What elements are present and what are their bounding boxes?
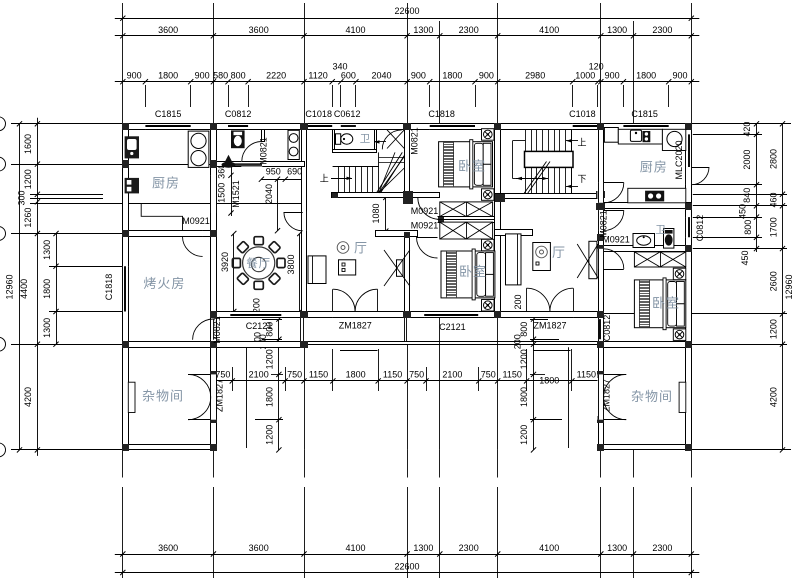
svg-text:2800: 2800 xyxy=(768,149,778,169)
wardrobe shelf band xyxy=(438,216,495,218)
svg-text:卫: 卫 xyxy=(655,224,667,236)
grid lines through courtyard xyxy=(304,344,306,450)
stair south wall left xyxy=(332,193,410,198)
wardrobe right bedroom xyxy=(634,252,685,267)
bath-left shower with X xyxy=(387,130,404,149)
main double door ZM1827 left xyxy=(333,311,378,318)
svg-text:750: 750 xyxy=(409,369,424,379)
svg-text:M0921: M0921 xyxy=(602,235,630,245)
bed top bedroom D..F xyxy=(439,142,493,187)
svg-text:1150: 1150 xyxy=(309,369,328,379)
svg-text:厅: 厅 xyxy=(354,241,368,256)
svg-text:1000: 1000 xyxy=(575,71,595,81)
svg-text:2300: 2300 xyxy=(652,25,672,35)
svg-text:1300: 1300 xyxy=(42,240,52,260)
hall-left TV with X xyxy=(397,260,404,277)
door ZM1827 storage right xyxy=(598,374,605,419)
window C2121 dining south xyxy=(230,311,281,318)
door dining to stair hall xyxy=(301,212,308,231)
svg-text:2100: 2100 xyxy=(249,369,269,379)
svg-text:杂物间: 杂物间 xyxy=(631,389,673,404)
door M0921 kitchen-left xyxy=(183,230,203,237)
stair south wall right xyxy=(495,194,604,199)
window C1818 top xyxy=(430,123,475,130)
porch step lines C..G at R7 xyxy=(307,341,598,343)
dining table with chairs xyxy=(277,258,285,267)
svg-text:厅: 厅 xyxy=(552,245,566,260)
svg-text:C1815: C1815 xyxy=(155,109,182,119)
storage-left walls xyxy=(123,342,217,348)
WC vanity double basin xyxy=(288,130,299,159)
doors M0921 nook top xyxy=(418,197,440,219)
svg-text:1200: 1200 xyxy=(23,169,33,189)
dim 950 690 xyxy=(261,179,304,181)
svg-text:300: 300 xyxy=(17,190,27,205)
svg-text:120: 120 xyxy=(589,62,604,72)
window C0812 in wall G to porch xyxy=(598,319,605,339)
kitchen-right fridge xyxy=(604,128,618,143)
svg-text:M0921: M0921 xyxy=(411,206,439,216)
svg-text:1200: 1200 xyxy=(265,349,275,369)
svg-text:4100: 4100 xyxy=(539,543,559,553)
svg-text:4200: 4200 xyxy=(768,387,778,407)
svg-text:餐厅: 餐厅 xyxy=(246,256,271,270)
stair left unit: lower flight risers xyxy=(333,166,379,168)
svg-text:ZM1827: ZM1827 xyxy=(533,321,566,331)
svg-text:460: 460 xyxy=(768,192,778,207)
svg-text:2000: 2000 xyxy=(742,150,752,170)
svg-text:C2121: C2121 xyxy=(439,322,466,332)
kitchen-right south wall xyxy=(599,203,692,209)
kitchen-right water heater xyxy=(662,129,685,150)
main double door ZM1827 right xyxy=(527,311,574,318)
svg-text:1200: 1200 xyxy=(768,319,778,339)
svg-text:840: 840 xyxy=(742,188,752,203)
bath-left door arc xyxy=(382,130,402,150)
bath-left toilet xyxy=(336,134,341,145)
dim 3920 dining xyxy=(233,234,235,312)
kitchen-right south counter with stove xyxy=(628,188,686,203)
stair right landing box xyxy=(525,151,574,167)
nook wall to wardrobe left xyxy=(410,193,440,198)
door ZM1827 storage left xyxy=(210,374,217,419)
axis grid lines below plan xyxy=(122,450,124,478)
svg-text:1600: 1600 xyxy=(23,134,33,154)
bed lower bedroom D..F xyxy=(441,251,495,298)
bath-left enclosure xyxy=(333,130,335,153)
svg-text:1300: 1300 xyxy=(42,318,52,338)
top dimension row 1: overall 22600 xyxy=(115,18,700,20)
svg-text:1800: 1800 xyxy=(519,387,529,407)
svg-text:2100: 2100 xyxy=(442,369,462,379)
door bedroom right M0921 xyxy=(598,249,605,269)
top dimension row 3 xyxy=(115,81,700,83)
stair right unit: upper flight risers xyxy=(525,129,527,151)
svg-text:1200: 1200 xyxy=(519,349,529,369)
svg-text:卧室: 卧室 xyxy=(652,296,680,311)
svg-text:200: 200 xyxy=(513,294,523,309)
svg-text:1800: 1800 xyxy=(158,71,178,81)
svg-text:上: 上 xyxy=(577,137,586,147)
left grid bubbles xyxy=(0,117,6,131)
kitchen-left south wall R4 xyxy=(123,231,217,237)
svg-text:3920: 3920 xyxy=(220,252,230,272)
stair right break arrows xyxy=(516,178,548,180)
svg-text:900: 900 xyxy=(479,71,494,81)
svg-text:750: 750 xyxy=(287,369,302,379)
hall labels with circle symbol xyxy=(337,242,349,254)
svg-text:1800: 1800 xyxy=(442,71,462,81)
window C1018 left xyxy=(307,123,332,130)
svg-text:1120: 1120 xyxy=(308,71,327,81)
hall-right TV with X xyxy=(589,241,597,278)
svg-text:200: 200 xyxy=(252,298,262,313)
window C1818 west wall xyxy=(122,266,129,311)
stair right handrail U xyxy=(512,141,514,179)
exterior wall right I xyxy=(686,124,692,450)
stair left corner column xyxy=(378,152,380,193)
svg-text:C0612: C0612 xyxy=(334,109,361,119)
window C0612 xyxy=(341,123,356,130)
WC toilet xyxy=(231,130,245,148)
exterior wall top R1 xyxy=(123,124,692,130)
door MLC2020 part xyxy=(685,167,692,185)
svg-text:800: 800 xyxy=(743,220,753,235)
svg-text:1800: 1800 xyxy=(42,279,52,299)
left axis extension lines xyxy=(11,123,123,125)
svg-text:690: 690 xyxy=(287,167,302,177)
wall B vertical xyxy=(211,124,217,450)
svg-text:1800: 1800 xyxy=(539,376,559,386)
courtyard horizontal dim row xyxy=(213,380,600,382)
svg-text:C0812: C0812 xyxy=(695,215,705,242)
left inner dim 1300 1800 1300 xyxy=(56,234,58,345)
wall G vertical xyxy=(599,124,604,450)
svg-text:C1018: C1018 xyxy=(305,109,332,119)
svg-text:450: 450 xyxy=(740,250,750,265)
wall F vertical xyxy=(495,124,501,318)
south wall R6 of middle section xyxy=(211,312,604,318)
svg-text:上: 上 xyxy=(320,173,329,183)
bottom overall 22600 xyxy=(115,572,700,574)
window C0812 bath right xyxy=(685,217,692,237)
svg-text:12960: 12960 xyxy=(784,274,794,299)
svg-text:C1818: C1818 xyxy=(428,109,455,119)
bath-right south wall xyxy=(599,246,692,252)
svg-text:ZM1827: ZM1827 xyxy=(215,379,225,412)
svg-text:2220: 2220 xyxy=(266,71,286,81)
svg-text:2040: 2040 xyxy=(264,184,274,204)
hall-left table xyxy=(339,260,356,275)
svg-text:22600: 22600 xyxy=(394,562,419,572)
svg-text:2300: 2300 xyxy=(459,25,479,35)
svg-text:M0821: M0821 xyxy=(212,316,222,344)
stair right lower flight risers xyxy=(525,167,527,193)
window C1018 right xyxy=(573,123,598,130)
stair left break diagonal xyxy=(377,152,403,193)
wall L2 WC south xyxy=(214,162,305,167)
svg-text:450: 450 xyxy=(738,204,748,219)
svg-text:C1815: C1815 xyxy=(631,109,658,119)
porch south wall B..C at R7 xyxy=(211,342,307,348)
left dim column xyxy=(37,118,39,456)
porch side walls at C and D below R6 xyxy=(301,318,304,342)
stair left winder fan lines xyxy=(379,157,405,193)
svg-text:22600: 22600 xyxy=(394,6,419,16)
svg-text:750: 750 xyxy=(215,369,230,379)
hall-left north wall + nook south wall xyxy=(376,231,418,237)
svg-text:C1818: C1818 xyxy=(104,274,114,301)
window C1815 right xyxy=(623,123,668,130)
svg-text:2600: 2600 xyxy=(768,271,778,291)
svg-text:C0812: C0812 xyxy=(602,315,612,342)
svg-text:1300: 1300 xyxy=(607,543,627,553)
svg-text:4400: 4400 xyxy=(19,279,29,299)
svg-text:M1521: M1521 xyxy=(231,180,241,208)
svg-text:M0921: M0921 xyxy=(411,220,439,230)
bath-right toilet xyxy=(664,229,674,249)
svg-text:1700: 1700 xyxy=(768,217,778,237)
svg-text:2980: 2980 xyxy=(525,71,545,81)
svg-text:下: 下 xyxy=(577,174,586,184)
svg-text:1800: 1800 xyxy=(636,71,656,81)
svg-text:4100: 4100 xyxy=(345,25,365,35)
svg-text:600: 600 xyxy=(341,71,356,81)
door M1521 opening in wall B xyxy=(210,175,217,213)
hall-right sofa xyxy=(506,234,522,285)
dim 3800 dining xyxy=(299,234,301,312)
stair right break diagonal xyxy=(524,162,547,194)
kitchen-left double basin xyxy=(188,131,209,167)
svg-text:1150: 1150 xyxy=(503,369,522,379)
svg-text:3600: 3600 xyxy=(158,25,178,35)
svg-text:M0821: M0821 xyxy=(259,137,269,165)
svg-text:2300: 2300 xyxy=(652,543,672,553)
hall-right north wall xyxy=(495,230,533,236)
svg-text:ZM1827: ZM1827 xyxy=(602,379,612,412)
svg-text:C2121: C2121 xyxy=(246,321,273,331)
storage-right walls xyxy=(599,342,692,348)
storage-right window sill box xyxy=(679,382,686,412)
kitchen-right north counter xyxy=(618,129,662,144)
dim 1080 stair opening xyxy=(385,197,387,231)
svg-text:900: 900 xyxy=(411,71,426,81)
window C2121 bedroom south xyxy=(424,311,478,318)
svg-text:厨房: 厨房 xyxy=(152,176,180,191)
kitchen-right stove black xyxy=(643,131,651,142)
svg-text:厨房: 厨房 xyxy=(640,160,668,175)
svg-text:1150: 1150 xyxy=(383,369,402,379)
dim M1521 360 1500 at wall B xyxy=(231,167,233,216)
svg-text:12960: 12960 xyxy=(5,274,15,299)
wall D vertical xyxy=(405,124,410,198)
svg-text:MLC2020: MLC2020 xyxy=(674,140,684,179)
axis grid lines above plan xyxy=(122,3,124,124)
svg-text:1800: 1800 xyxy=(346,369,366,379)
svg-text:1800: 1800 xyxy=(265,387,275,407)
wall C vertical xyxy=(302,124,307,318)
svg-text:1300: 1300 xyxy=(413,543,433,553)
window C0812 xyxy=(228,123,248,130)
entry steps below porch doors xyxy=(340,350,378,352)
top dimension row 2: 3600 3600 4100 1300 2300 4100 1300 2300 xyxy=(115,35,700,37)
right outer dim column 2800 460 1700 2600 1200 4200 xyxy=(782,124,784,450)
wardrobe lower bedroom xyxy=(440,222,493,239)
svg-text:C0812: C0812 xyxy=(225,109,252,119)
svg-text:卧室: 卧室 xyxy=(458,158,486,173)
svg-text:1200: 1200 xyxy=(519,425,529,445)
right axis extension lines xyxy=(691,123,791,125)
svg-text:900: 900 xyxy=(672,71,687,81)
svg-text:420: 420 xyxy=(742,122,752,137)
svg-text:1300: 1300 xyxy=(607,25,627,35)
svg-text:1500: 1500 xyxy=(217,183,227,203)
svg-text:M0921: M0921 xyxy=(182,216,210,226)
svg-text:1200: 1200 xyxy=(265,425,275,445)
svg-text:3600: 3600 xyxy=(249,543,269,553)
svg-text:900: 900 xyxy=(605,71,620,81)
svg-text:1080: 1080 xyxy=(371,203,381,223)
hall-right table xyxy=(533,243,551,271)
svg-text:3600: 3600 xyxy=(158,543,178,553)
kitchen-right sink xyxy=(630,130,641,141)
courtyard vertical dim left: 800 200 1200 1800 1200 xyxy=(278,319,280,450)
kitchen-left sink unit xyxy=(125,136,139,158)
door M0821 fire-room to porch xyxy=(210,319,217,340)
right inner dim column 420 2000 840 450 800 450 xyxy=(756,124,758,252)
bottom dimension row: 3600 3600 4100 1300 2300 4100 1300 2300 xyxy=(115,554,700,556)
svg-text:卧室: 卧室 xyxy=(459,264,487,279)
svg-text:C1018: C1018 xyxy=(569,109,596,119)
bath-left arrow xyxy=(374,141,386,143)
bath-right sink xyxy=(633,234,655,248)
svg-text:烤火房: 烤火房 xyxy=(143,276,185,291)
bed right bedroom G..I xyxy=(634,280,685,328)
svg-text:1150: 1150 xyxy=(577,369,596,379)
svg-text:ZM1827: ZM1827 xyxy=(339,321,372,331)
door M0821 WC (sill + arc) xyxy=(241,162,262,167)
svg-text:750: 750 xyxy=(481,369,496,379)
exterior wall left A xyxy=(123,124,129,450)
svg-text:2040: 2040 xyxy=(371,71,391,81)
svg-text:3800: 3800 xyxy=(286,254,296,274)
svg-text:M0821: M0821 xyxy=(410,127,420,155)
storage-left window sill box xyxy=(128,382,135,412)
svg-text:杂物间: 杂物间 xyxy=(142,389,184,404)
svg-text:800: 800 xyxy=(231,71,246,81)
svg-text:340: 340 xyxy=(332,62,347,72)
courtyard vertical dim right: 800 200 1200 1800 1200 xyxy=(533,319,535,450)
left overall 12960 xyxy=(19,124,21,450)
hall-left sofa xyxy=(308,256,326,284)
top dim extension stubs xyxy=(145,85,147,107)
doors M0921 nook bottom xyxy=(417,237,438,258)
svg-text:4100: 4100 xyxy=(539,25,559,35)
WC partition xyxy=(262,130,265,142)
svg-text:4100: 4100 xyxy=(345,543,365,553)
svg-text:900: 900 xyxy=(127,71,142,81)
svg-text:卫: 卫 xyxy=(360,133,372,145)
courtyard side thin walls xyxy=(246,347,248,448)
svg-text:1260: 1260 xyxy=(23,208,33,228)
svg-text:2300: 2300 xyxy=(459,543,479,553)
window part of MLC2020 xyxy=(685,134,692,167)
door kitchen right xyxy=(598,183,605,203)
svg-text:950: 950 xyxy=(266,167,281,177)
dim 2040 xyxy=(277,179,279,231)
column blocks xyxy=(122,123,129,130)
svg-text:4200: 4200 xyxy=(23,387,33,407)
kitchen-left stove unit xyxy=(125,178,139,194)
kitchen-left counter edge xyxy=(141,204,182,231)
wardrobe top bedroom xyxy=(440,202,493,217)
svg-text:1300: 1300 xyxy=(413,25,433,35)
svg-text:580: 580 xyxy=(213,71,228,81)
svg-text:900: 900 xyxy=(195,71,210,81)
door bath right M0821 xyxy=(598,210,605,230)
svg-text:3600: 3600 xyxy=(249,25,269,35)
window C1815 left xyxy=(145,123,190,130)
